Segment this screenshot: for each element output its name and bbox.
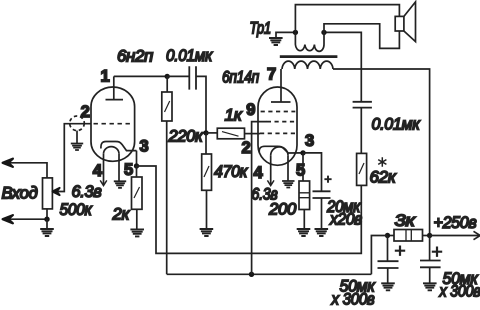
power mark in 470к xyxy=(204,166,209,177)
svg-text:220к: 220к xyxy=(168,127,204,146)
plus sign 20мк xyxy=(324,176,331,183)
wire B+ bus horizontal xyxy=(167,273,372,275)
power marks in 3к xyxy=(406,230,411,242)
resistor 220к xyxy=(162,92,172,121)
arrow +250в xyxy=(474,231,480,239)
wire 470к to ground xyxy=(206,190,208,229)
wire filtered node to capacitor 50мк left xyxy=(387,236,389,262)
svg-text:2: 2 xyxy=(242,139,251,157)
svg-text:3: 3 xyxy=(140,138,149,156)
arrow input lower xyxy=(3,215,13,223)
capacitor C 0.01мк feedback xyxy=(353,102,372,108)
V2 heater pin 5 lead xyxy=(287,155,289,181)
svg-text:200: 200 xyxy=(268,200,297,219)
ground pot xyxy=(46,219,48,229)
V2 screen grid dashed line xyxy=(261,111,296,113)
node V2 cathode xyxy=(300,150,305,155)
arrow heater V2 (6.3в) xyxy=(267,180,274,185)
V2 control grid dashed line xyxy=(260,132,295,134)
wire 1к to V2 control grid xyxy=(245,133,261,135)
V1 cathode xyxy=(101,142,137,151)
V1 grid dashed line xyxy=(94,123,134,125)
wire secondary right to speaker return xyxy=(324,24,399,49)
svg-text:х 300в: х 300в xyxy=(439,282,480,301)
node V1 cathode xyxy=(134,163,139,168)
V2 heater pin 4 lead xyxy=(270,155,272,185)
node secondary left xyxy=(293,30,298,35)
svg-text:6п14п: 6п14п xyxy=(222,68,260,87)
svg-text:9: 9 xyxy=(246,101,255,119)
V1 heater dome xyxy=(104,147,120,154)
pin 9 screen lead xyxy=(252,122,267,275)
wire 62к to feedback cap xyxy=(360,108,362,154)
arrow heater V1 (6.3в) xyxy=(100,180,107,185)
V2 cathode xyxy=(259,146,303,153)
wire pot bottom to ground node xyxy=(46,209,48,219)
node V1 anode / R 220к / C 0.01мк xyxy=(165,74,170,79)
ground 200 xyxy=(297,229,311,236)
speaker Гр1 box xyxy=(395,16,404,31)
plus sign 50мк right xyxy=(432,247,442,257)
svg-text:4: 4 xyxy=(93,162,103,180)
power marks in 200 xyxy=(299,193,310,198)
resistor 62к feedback xyxy=(357,153,367,185)
svg-text:3к: 3к xyxy=(395,211,416,230)
node grid circuit of V2 xyxy=(203,130,208,135)
arrow input upper xyxy=(3,159,13,167)
svg-text:Вход: Вход xyxy=(2,184,38,203)
ground 20мк xyxy=(315,229,329,236)
wire wiper to grid of V1 xyxy=(58,124,91,192)
V1 anode lead pin 1 xyxy=(113,76,115,99)
wire coupling cap to grid node xyxy=(196,76,206,132)
asterisk for 62к xyxy=(378,157,386,167)
capacitor C 0.01мк coupling xyxy=(189,66,196,89)
potentiometer R1 500к xyxy=(43,178,53,209)
V1 heater pin 5 lead xyxy=(118,154,120,182)
node +250в supply xyxy=(427,233,432,238)
svg-text:2: 2 xyxy=(81,103,90,121)
capacitor 50мк right xyxy=(420,261,441,268)
V1 heater pin 4 lead xyxy=(103,154,105,185)
resistor 470к xyxy=(202,154,212,190)
wire V1 cathode node to feedback line xyxy=(137,166,362,253)
svg-text:470к: 470к xyxy=(214,162,248,181)
wire primary right to +250в rail xyxy=(333,69,430,236)
wire node to 1к xyxy=(206,132,217,134)
wire input upper line xyxy=(8,163,47,178)
V2 suppressor grid dashed line xyxy=(267,121,296,123)
svg-text:6н2п: 6н2п xyxy=(117,47,154,66)
svg-text:62к: 62к xyxy=(370,168,397,187)
ground Тр1 secondary xyxy=(276,32,295,38)
svg-text:3: 3 xyxy=(305,132,314,150)
V2 heater dome xyxy=(271,147,288,155)
transformer primary winding xyxy=(282,61,333,69)
transformer secondary winding xyxy=(295,32,324,51)
power mark in 220к xyxy=(165,101,170,112)
wire 3к left to node xyxy=(388,235,395,237)
svg-text:х20в: х20в xyxy=(329,210,362,229)
wire 2к to ground xyxy=(136,209,138,229)
capacitor 50мк left xyxy=(378,261,399,268)
wire 50мк right to ground xyxy=(429,267,431,283)
node B+ filtered xyxy=(385,233,390,238)
wire feedback cap to secondary tap xyxy=(324,32,361,101)
wire 50мк left to ground xyxy=(387,268,389,283)
wire +250в to edge xyxy=(430,235,480,237)
svg-text:6.3в: 6.3в xyxy=(72,182,102,201)
power mark in 2к xyxy=(134,187,140,198)
wiper arrow of potentiometer xyxy=(52,188,59,195)
ground 2к xyxy=(130,229,144,236)
svg-text:0.01мк: 0.01мк xyxy=(372,115,421,134)
wire cathode node to bypass cap xyxy=(303,153,322,191)
ground heater pin 5 V2 xyxy=(282,181,294,188)
resistor 200 xyxy=(299,181,310,210)
power mark in 1к xyxy=(222,132,239,137)
V2 anode plate bar xyxy=(271,101,291,103)
wire 200 to ground xyxy=(303,210,305,230)
svg-text:+250в: +250в xyxy=(434,213,477,232)
svg-text:1: 1 xyxy=(101,68,110,86)
wire 3к right to supply node xyxy=(423,235,430,237)
resistor 1к xyxy=(217,128,244,139)
svg-text:Тр1: Тр1 xyxy=(250,19,272,38)
wire 20мк to ground xyxy=(321,198,323,229)
wire grid node down to 470к xyxy=(205,133,207,154)
ground 50мк left xyxy=(381,283,395,290)
ground 50мк right xyxy=(423,283,437,290)
wire node to 220к top xyxy=(166,76,168,92)
wire cathode node down to 200 xyxy=(302,153,304,181)
V1 anode plate bar xyxy=(106,99,124,101)
node secondary right xyxy=(321,30,326,35)
svg-text:2к: 2к xyxy=(112,205,131,224)
transformer core xyxy=(280,55,338,58)
wire plate node to coupling cap xyxy=(167,75,189,77)
resistor 2к xyxy=(132,177,143,209)
node pot bottom junction xyxy=(44,217,49,222)
wire secondary left up to speaker top xyxy=(295,5,399,33)
wire filtered node to B+ bus riser xyxy=(371,236,387,275)
svg-text:7: 7 xyxy=(267,66,276,84)
svg-text:1к: 1к xyxy=(225,106,243,125)
power mark in 62к xyxy=(359,163,364,174)
ground shield xyxy=(76,131,78,144)
resistor 3к filter xyxy=(394,230,423,242)
V2 anode lead pin 7 xyxy=(280,69,282,102)
svg-text:500к: 500к xyxy=(60,200,93,219)
wire supply node to capacitor 50мк right xyxy=(429,236,431,261)
capacitor 20мк bypass xyxy=(313,191,331,198)
tube V1 6н2п envelope xyxy=(91,87,135,161)
svg-text:х 300в: х 300в xyxy=(331,290,375,309)
node screen grid feed on B+ bus xyxy=(249,272,254,277)
wire 220к bottom down to B+ bus xyxy=(166,121,168,274)
plus sign 50мк left xyxy=(395,246,405,256)
wire input lower line xyxy=(8,218,47,220)
svg-text:4: 4 xyxy=(254,164,264,182)
speaker cone xyxy=(404,2,416,42)
svg-text:0.01мк: 0.01мк xyxy=(166,46,213,65)
tube V2 6п14п envelope xyxy=(258,87,297,165)
wire V1 anode to plate node xyxy=(114,75,167,77)
shield circle (screened input wire) xyxy=(70,116,85,131)
wire V1 cathode to node xyxy=(136,151,138,166)
ground 470к xyxy=(200,229,214,236)
ground heater pin 5 V1 xyxy=(114,181,126,188)
wire cathode node down to resistor 2к xyxy=(136,166,138,177)
